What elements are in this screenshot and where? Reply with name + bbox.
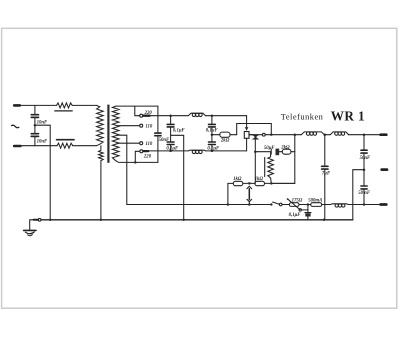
wire switch to 175 — [282, 204, 289, 206]
choke L5 heater — [331, 203, 349, 206]
switch lever — [273, 202, 280, 204]
svg-text:220: 220 — [144, 111, 153, 116]
plug bar 220 top — [144, 115, 150, 117]
resistor 175 box — [289, 203, 299, 207]
wire between 1k boxes — [243, 182, 255, 184]
wire rail A right — [206, 115, 247, 117]
node rail A cap L — [169, 114, 172, 117]
wire top mains — [20, 104, 57, 106]
resistor 2k box second — [282, 149, 291, 154]
node rail B cap R — [211, 150, 214, 153]
capacitor 0,1uF right bottom — [209, 141, 216, 143]
wire heater tap — [117, 135, 126, 204]
resistor R top zigzag — [57, 103, 73, 108]
node 50nF top — [363, 133, 366, 136]
svg-text:0,1μF: 0,1μF — [166, 147, 179, 152]
wire ground riser right — [353, 170, 364, 220]
wire secondary top — [116, 105, 158, 107]
wire cap midpoint to ground riser — [35, 125, 50, 220]
node rail B cap L — [169, 150, 172, 153]
node heater arrow element — [248, 203, 251, 206]
AC tilde symbol — [11, 125, 19, 128]
wire top to transformer — [72, 104, 96, 106]
svg-text:220: 220 — [143, 154, 152, 159]
svg-text:0,1μF: 0,1μF — [173, 129, 186, 134]
wire bowtie to contact — [249, 134, 262, 136]
node riser 2k — [294, 133, 297, 136]
svg-text:50nF: 50nF — [159, 138, 170, 143]
svg-text:50 nF: 50 nF — [358, 191, 371, 196]
node heater 1k riser — [227, 203, 230, 206]
node ground 10nF — [49, 219, 52, 222]
capacitor 0,1uF right top — [211, 116, 213, 124]
wire 1k row — [228, 182, 233, 184]
rectifier box U1 — [244, 132, 249, 139]
voltage arrow element — [247, 186, 252, 188]
node 50uF branch — [254, 150, 256, 153]
wire 1k row left corner — [227, 183, 229, 204]
choke L2 bottom — [188, 149, 205, 152]
capacitor 50nF lower right — [361, 185, 367, 187]
wire rectifier output — [249, 134, 253, 136]
wire 1k row right — [265, 182, 295, 184]
capacitor 10nF lower — [34, 125, 36, 133]
socket 110 lower — [140, 142, 143, 145]
svg-text:Telefunken: Telefunken — [281, 112, 324, 121]
svg-text:110: 110 — [145, 142, 153, 147]
wire tap 110 lower — [117, 142, 139, 144]
node ground transformer — [100, 219, 103, 222]
wire 220 bottom to winding bottom — [135, 151, 140, 162]
svg-text:110: 110 — [145, 124, 153, 129]
choke L1 top — [188, 113, 205, 116]
socket 220 bottom — [140, 150, 143, 153]
resistor 1k box left — [233, 181, 243, 185]
node rail A cap R — [211, 114, 214, 117]
switch contact — [279, 203, 282, 206]
svg-text:0,1μF: 0,1μF — [206, 129, 219, 134]
node 7uF — [324, 133, 327, 136]
wire rail B right — [206, 150, 247, 152]
node ground 7uF — [323, 219, 326, 222]
resistor 1k box right — [255, 181, 265, 185]
wire 175 to fuse — [299, 204, 311, 206]
wire output rail segment 2 — [324, 134, 330, 136]
terminal output plus — [381, 133, 387, 136]
node ground filter mid — [182, 219, 185, 222]
resistor R bottom zigzag — [57, 143, 73, 148]
svg-text:10nF: 10nF — [37, 120, 48, 125]
svg-text:7μF: 7μF — [322, 172, 331, 177]
rectifier arrow — [245, 127, 249, 131]
wire cap L midpoint to ground — [171, 135, 184, 220]
node 50nF midpoint — [363, 168, 366, 171]
node loop join — [270, 133, 273, 136]
wire tap 110 upper — [117, 125, 139, 127]
capacitor 0,1uF left bottom — [167, 141, 174, 143]
wire small winding to ground rail — [100, 161, 102, 220]
capacitor 10nF upper — [34, 105, 36, 114]
capacitor 01uF heater — [307, 205, 309, 213]
svg-text:0,1μF: 0,1μF — [289, 213, 302, 218]
svg-text:0,1μF: 0,1μF — [207, 147, 220, 152]
wire bottom to transformer — [73, 145, 97, 147]
contact circle blade end — [299, 209, 301, 211]
node arrow element top — [248, 182, 251, 185]
plug bar 220 bottom — [144, 150, 149, 152]
wire cap R midpoint to resistor box — [212, 134, 220, 136]
wire box to loop — [230, 134, 237, 136]
contact circle — [262, 133, 265, 136]
wire rail A corner to rectifier — [246, 116, 248, 127]
node resistor bottom — [270, 182, 273, 185]
node 50nF bottom rail — [363, 203, 366, 206]
resistor R bottom bar — [57, 139, 74, 141]
wire fuse to choke — [322, 204, 331, 206]
socket 110 upper — [140, 124, 143, 127]
wire secondary bottom — [116, 161, 158, 163]
svg-text:500mA: 500mA — [308, 198, 322, 203]
node switch left — [270, 203, 272, 205]
wire 2k box to riser — [291, 151, 295, 153]
wire riser 2k — [271, 135, 295, 184]
wire bypass loop — [237, 124, 272, 135]
ground contact circle — [38, 218, 41, 221]
node capacitor midpoint — [34, 124, 37, 127]
node secondary bottom — [134, 161, 137, 164]
node cap 01uF — [307, 203, 310, 206]
ground symbol — [24, 229, 36, 231]
choke L3 output — [301, 132, 324, 135]
wire to 50uF — [255, 151, 270, 153]
svg-text:1kΩ: 1kΩ — [255, 177, 264, 182]
svg-text:50nF: 50nF — [360, 156, 371, 161]
resistor R top bar — [55, 110, 72, 112]
svg-text:2kΩ: 2kΩ — [220, 138, 230, 143]
svg-text:175Ω: 175Ω — [292, 199, 303, 204]
svg-text:50μF: 50μF — [264, 146, 275, 151]
wire rail B left — [148, 150, 188, 152]
wire ground corner — [30, 220, 34, 230]
wire rail A left — [150, 115, 188, 117]
wire bowtie drop — [254, 139, 256, 183]
capacitor 50nF across secondary — [157, 106, 159, 132]
mains terminal bottom — [14, 145, 20, 148]
transformer small winding lower — [99, 146, 104, 161]
svg-text:2kΩ: 2kΩ — [280, 145, 290, 150]
wire bottom mains — [20, 145, 57, 147]
svg-text:10nF: 10nF — [37, 139, 48, 144]
ground rail — [41, 219, 353, 221]
heater rail — [127, 204, 272, 206]
wire output rail segment 1 — [265, 134, 301, 136]
svg-text:1kΩ: 1kΩ — [233, 177, 242, 182]
lamp bowtie — [253, 135, 258, 139]
wire rectifier to rail B — [246, 138, 248, 151]
terminal heater — [381, 203, 387, 206]
capacitor 50nF upper right — [363, 135, 365, 150]
wire 50uF to 2k box — [279, 151, 282, 153]
capacitor 50uF electrolytic — [270, 149, 272, 154]
choke L4 output — [330, 132, 349, 135]
fuse 500mA box — [311, 203, 322, 207]
resistor vertical bar — [264, 157, 266, 176]
transformer core — [107, 105, 109, 163]
ground lead thick — [34, 219, 39, 221]
capacitor 7uF — [324, 135, 326, 166]
switch blade diagonal — [287, 199, 300, 210]
transformer T1 secondary winding — [112, 106, 119, 161]
wire choke to terminal — [348, 204, 380, 206]
wire output rail segment 3 — [348, 134, 380, 136]
mains terminal top — [14, 104, 20, 107]
resistor vertical zigzag — [268, 152, 274, 184]
wire blade contact to cap node — [301, 209, 308, 211]
svg-text:WR 1: WR 1 — [331, 109, 365, 124]
terminal middle floating — [382, 168, 387, 171]
capacitor 0,1uF left top — [170, 116, 172, 124]
resistor 2k box — [220, 132, 230, 137]
transformer T1 primary winding — [96, 105, 103, 145]
socket 220 top — [140, 114, 143, 117]
wire stub to 220 socket top — [135, 106, 140, 116]
node cap R midpoint — [211, 133, 214, 136]
